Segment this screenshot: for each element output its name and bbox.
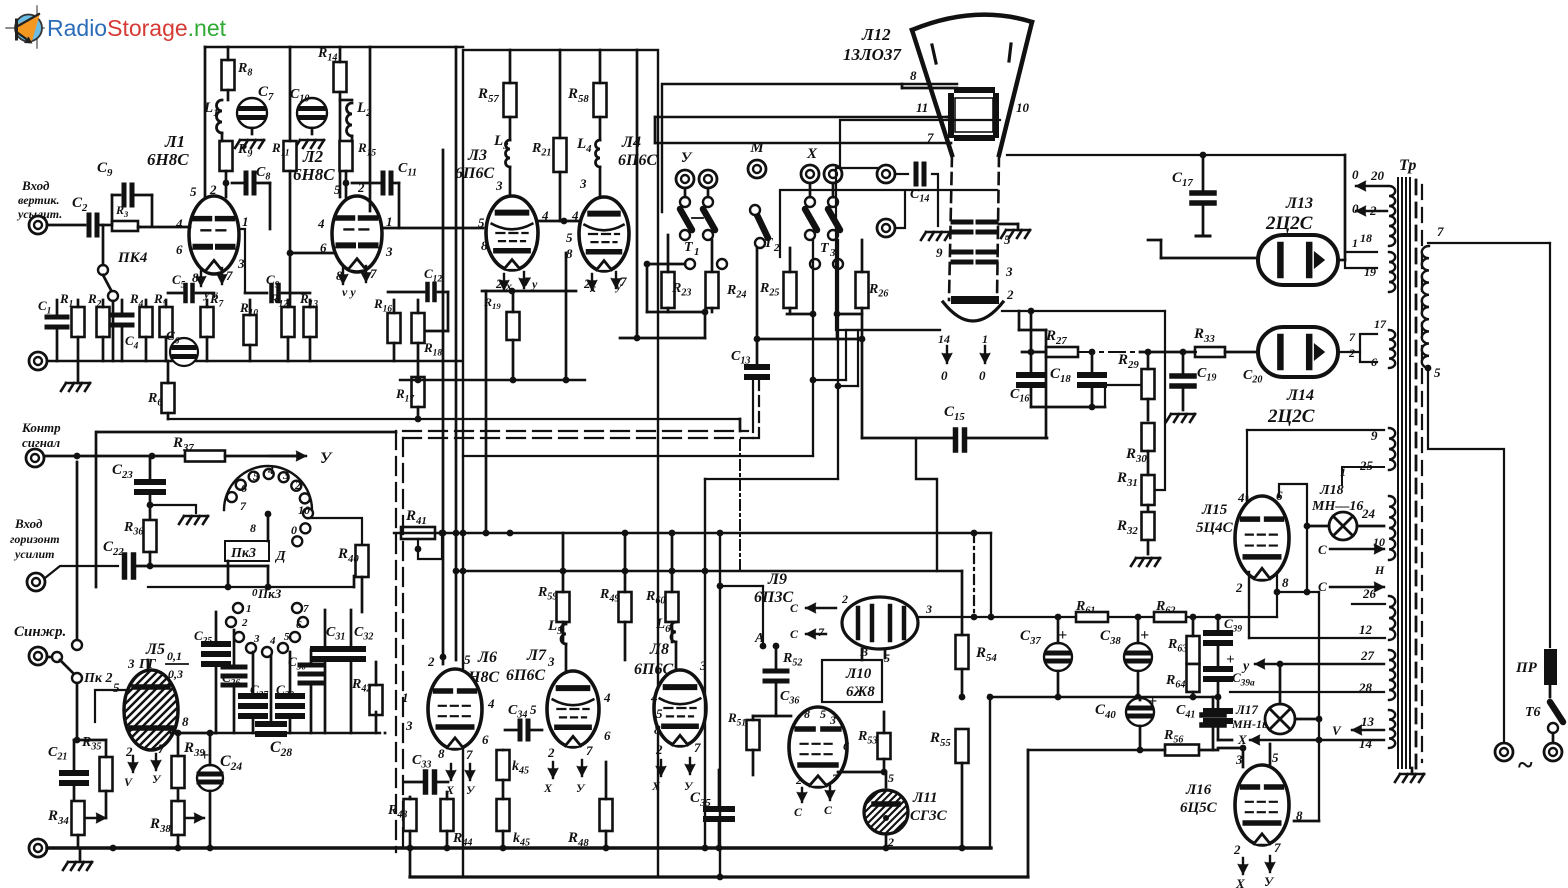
svg-text:1: 1 bbox=[1352, 236, 1358, 250]
svg-text:5Ц4С: 5Ц4С bbox=[1196, 520, 1234, 536]
svg-text:2: 2 bbox=[294, 478, 301, 492]
svg-text:7: 7 bbox=[818, 625, 825, 639]
svg-text:у: у bbox=[530, 277, 538, 291]
svg-text:Л12: Л12 bbox=[861, 25, 891, 44]
svg-text:5: 5 bbox=[190, 184, 197, 199]
svg-text:7: 7 bbox=[927, 130, 934, 145]
svg-text:5: 5 bbox=[113, 680, 120, 695]
svg-text:Пк 2: Пк 2 bbox=[83, 671, 113, 686]
svg-text:4: 4 bbox=[267, 463, 274, 477]
svg-text:4: 4 bbox=[175, 216, 183, 231]
svg-text:Н: Н bbox=[1374, 563, 1385, 577]
svg-text:2: 2 bbox=[1233, 842, 1241, 857]
svg-text:17: 17 bbox=[1374, 317, 1387, 331]
svg-text:0: 0 bbox=[941, 368, 948, 383]
svg-text:5: 5 bbox=[566, 230, 573, 245]
svg-text:6П6С: 6П6С bbox=[506, 667, 545, 684]
svg-text:1: 1 bbox=[982, 332, 988, 346]
svg-text:у: у bbox=[1241, 659, 1250, 674]
svg-text:Вход: Вход bbox=[21, 178, 50, 193]
svg-text:Т: Т bbox=[684, 240, 694, 255]
svg-text:12: 12 bbox=[1359, 622, 1373, 637]
svg-text:7: 7 bbox=[158, 741, 165, 756]
svg-text:1: 1 bbox=[694, 246, 700, 258]
svg-text:2: 2 bbox=[655, 742, 663, 757]
svg-text:6П3С: 6П3С bbox=[754, 589, 793, 606]
svg-text:0: 0 bbox=[291, 523, 297, 537]
svg-text:Л11: Л11 bbox=[912, 790, 937, 806]
svg-text:4: 4 bbox=[317, 216, 325, 231]
svg-text:13ЛО37: 13ЛО37 bbox=[843, 45, 902, 64]
svg-text:С: С bbox=[794, 805, 803, 819]
svg-text:2: 2 bbox=[547, 745, 555, 760]
svg-text:3: 3 bbox=[925, 602, 932, 616]
svg-text:Х: Х bbox=[651, 779, 661, 793]
svg-text:2Ц2С: 2Ц2С bbox=[1267, 406, 1315, 427]
svg-text:Д: Д bbox=[274, 549, 286, 564]
svg-text:6П6С: 6П6С bbox=[455, 165, 494, 182]
svg-text:v у: v у bbox=[342, 285, 356, 299]
svg-text:2Ц2С: 2Ц2С bbox=[1265, 213, 1313, 234]
svg-text:0,1: 0,1 bbox=[167, 649, 182, 663]
svg-text:0: 0 bbox=[1352, 167, 1359, 182]
svg-text:7: 7 bbox=[303, 603, 309, 615]
svg-text:~: ~ bbox=[1518, 750, 1533, 781]
svg-text:Вход: Вход bbox=[14, 516, 43, 531]
svg-text:6Ц5С: 6Ц5С bbox=[1180, 800, 1218, 816]
svg-text:0: 0 bbox=[252, 587, 258, 599]
svg-text:С: С bbox=[1318, 542, 1327, 557]
svg-text:Контр: Контр bbox=[21, 420, 61, 435]
svg-text:1: 1 bbox=[402, 690, 409, 705]
svg-text:2: 2 bbox=[841, 592, 848, 606]
svg-text:ПК4: ПК4 bbox=[117, 250, 148, 266]
svg-text:0: 0 bbox=[1352, 201, 1359, 216]
svg-text:сигнал: сигнал bbox=[22, 435, 61, 450]
svg-text:В: В bbox=[859, 645, 868, 659]
svg-text:7: 7 bbox=[694, 740, 701, 755]
svg-text:СГ3С: СГ3С bbox=[910, 808, 948, 824]
svg-text:3: 3 bbox=[829, 713, 836, 727]
svg-text:2: 2 bbox=[1006, 287, 1014, 302]
svg-text:2: 2 bbox=[241, 617, 248, 629]
svg-text:14: 14 bbox=[938, 332, 950, 346]
svg-text:6Н8С: 6Н8С bbox=[147, 150, 189, 169]
svg-text:4: 4 bbox=[269, 635, 276, 647]
svg-text:3: 3 bbox=[405, 718, 413, 733]
svg-text:4: 4 bbox=[571, 208, 579, 223]
svg-text:5: 5 bbox=[253, 469, 259, 483]
svg-text:+: + bbox=[1140, 627, 1149, 644]
svg-text:Л9: Л9 bbox=[767, 571, 787, 588]
svg-text:+: + bbox=[1058, 627, 1067, 644]
svg-text:вертик.: вертик. bbox=[18, 193, 59, 207]
svg-text:10: 10 bbox=[1016, 100, 1030, 115]
svg-text:7: 7 bbox=[1437, 224, 1444, 239]
svg-text:3: 3 bbox=[253, 633, 260, 645]
svg-text:7: 7 bbox=[1274, 840, 1281, 855]
svg-text:Л8: Л8 bbox=[649, 641, 669, 658]
svg-text:Л6: Л6 bbox=[477, 649, 497, 666]
svg-text:7: 7 bbox=[586, 743, 593, 758]
svg-text:3: 3 bbox=[237, 256, 245, 271]
svg-text:6: 6 bbox=[482, 732, 489, 747]
svg-text:2: 2 bbox=[1235, 580, 1243, 595]
svg-text:Л5: Л5 bbox=[145, 641, 165, 658]
svg-text:6: 6 bbox=[320, 240, 327, 255]
svg-text:25: 25 bbox=[1359, 458, 1374, 473]
svg-text:4: 4 bbox=[650, 690, 658, 705]
svg-text:горизонт: горизонт bbox=[10, 532, 60, 546]
svg-text:5: 5 bbox=[884, 651, 890, 665]
svg-text:7: 7 bbox=[240, 499, 247, 513]
svg-text:Л15: Л15 bbox=[1201, 502, 1228, 518]
svg-text:ПкЗ: ПкЗ bbox=[257, 586, 282, 601]
svg-text:5: 5 bbox=[284, 631, 290, 643]
svg-text:1: 1 bbox=[242, 214, 249, 229]
svg-text:4: 4 bbox=[1237, 490, 1245, 505]
svg-text:Л16: Л16 bbox=[1185, 782, 1212, 798]
svg-text:2: 2 bbox=[357, 180, 365, 195]
svg-text:Х: Х bbox=[1237, 732, 1247, 747]
svg-text:4: 4 bbox=[603, 690, 611, 705]
svg-text:у: у bbox=[614, 279, 622, 293]
svg-text:4: 4 bbox=[487, 696, 495, 711]
svg-text:6Ж8: 6Ж8 bbox=[846, 684, 875, 700]
svg-text:Л1: Л1 bbox=[164, 132, 185, 151]
svg-text:6Н8С: 6Н8С bbox=[293, 165, 335, 184]
svg-text:6: 6 bbox=[843, 739, 849, 753]
svg-text:Л3: Л3 bbox=[467, 147, 487, 164]
svg-text:8: 8 bbox=[250, 521, 256, 535]
svg-text:7: 7 bbox=[1349, 330, 1356, 344]
svg-text:5: 5 bbox=[1434, 365, 1441, 380]
svg-text:С: С bbox=[790, 627, 799, 641]
svg-text:8: 8 bbox=[1282, 575, 1289, 590]
svg-text:Х: Х bbox=[806, 146, 818, 162]
svg-text:V: V bbox=[124, 775, 133, 789]
svg-text:3: 3 bbox=[1005, 264, 1013, 279]
svg-text:7: 7 bbox=[466, 747, 473, 762]
svg-text:Пк3: Пк3 bbox=[230, 546, 256, 561]
svg-text:3: 3 bbox=[127, 656, 135, 671]
svg-text:5: 5 bbox=[1272, 750, 1279, 765]
svg-text:Л7: Л7 bbox=[526, 647, 547, 664]
svg-text:3: 3 bbox=[282, 468, 289, 482]
svg-text:Л18: Л18 bbox=[1319, 483, 1344, 498]
svg-text:8: 8 bbox=[182, 714, 189, 729]
svg-text:11: 11 bbox=[916, 100, 928, 115]
svg-text:4: 4 bbox=[541, 208, 549, 223]
svg-text:13: 13 bbox=[1361, 714, 1375, 729]
svg-text:6: 6 bbox=[241, 481, 247, 495]
svg-text:8: 8 bbox=[654, 722, 661, 737]
svg-text:С: С bbox=[824, 803, 833, 817]
svg-text:У: У bbox=[681, 150, 693, 166]
svg-text:х: х bbox=[589, 281, 596, 295]
svg-text:5: 5 bbox=[478, 215, 485, 230]
svg-text:2: 2 bbox=[427, 654, 435, 669]
svg-text:МН-1ь: МН-1ь bbox=[1231, 717, 1268, 731]
svg-text:8: 8 bbox=[438, 746, 445, 761]
svg-text:Х: Х bbox=[1235, 876, 1245, 888]
svg-text:5: 5 bbox=[530, 702, 537, 717]
svg-text:RadioStorage.net: RadioStorage.net bbox=[47, 15, 227, 41]
svg-text:0: 0 bbox=[979, 368, 986, 383]
svg-text:Х: Х bbox=[543, 781, 553, 795]
svg-text:Синжр.: Синжр. bbox=[14, 624, 66, 640]
svg-text:Т6: Т6 bbox=[1525, 705, 1541, 720]
svg-text:3: 3 bbox=[385, 244, 393, 259]
svg-text:ПР: ПР bbox=[1515, 660, 1538, 676]
svg-text:5: 5 bbox=[334, 182, 341, 197]
svg-text:5: 5 bbox=[888, 771, 894, 785]
svg-text:2: 2 bbox=[795, 773, 802, 787]
svg-text:9: 9 bbox=[936, 245, 943, 260]
svg-text:6: 6 bbox=[176, 242, 183, 257]
svg-text:6: 6 bbox=[296, 619, 302, 631]
svg-text:3: 3 bbox=[579, 176, 587, 191]
svg-text:V: V bbox=[1332, 723, 1342, 738]
svg-text:1: 1 bbox=[246, 603, 252, 615]
svg-text:3: 3 bbox=[495, 178, 503, 193]
svg-text:С: С bbox=[790, 601, 799, 615]
svg-text:26: 26 bbox=[1362, 586, 1377, 601]
svg-text:Т: Т bbox=[820, 241, 830, 256]
svg-text:Л17: Л17 bbox=[1235, 702, 1258, 717]
svg-text:14: 14 bbox=[1359, 736, 1373, 751]
svg-text:Л13: Л13 bbox=[1285, 195, 1313, 212]
svg-text:+: + bbox=[200, 747, 209, 764]
svg-text:7: 7 bbox=[370, 266, 377, 281]
svg-text:0,3: 0,3 bbox=[168, 667, 183, 681]
svg-text:2: 2 bbox=[209, 182, 217, 197]
svg-text:5: 5 bbox=[464, 652, 471, 667]
svg-text:3: 3 bbox=[547, 654, 555, 669]
svg-text:Л2: Л2 bbox=[302, 147, 324, 166]
svg-text:6: 6 bbox=[604, 728, 611, 743]
svg-text:усилит: усилит bbox=[13, 547, 55, 561]
svg-text:+: + bbox=[1226, 652, 1235, 668]
svg-text:5: 5 bbox=[656, 706, 663, 721]
svg-text:7: 7 bbox=[226, 268, 233, 283]
svg-text:18: 18 bbox=[1360, 231, 1372, 245]
svg-text:8: 8 bbox=[910, 68, 917, 83]
svg-text:У: У bbox=[320, 450, 333, 467]
svg-text:10: 10 bbox=[298, 503, 310, 517]
svg-text:Л14: Л14 bbox=[1286, 387, 1314, 404]
svg-text:27: 27 bbox=[1360, 648, 1375, 663]
svg-text:Л10: Л10 bbox=[845, 666, 872, 682]
svg-text:Тр: Тр bbox=[1399, 157, 1416, 174]
svg-text:8: 8 bbox=[804, 707, 810, 721]
svg-text:6: 6 bbox=[1371, 355, 1377, 369]
svg-text:5: 5 bbox=[820, 707, 826, 721]
svg-text:8: 8 bbox=[481, 238, 488, 253]
svg-text:20: 20 bbox=[1370, 168, 1385, 183]
svg-text:1: 1 bbox=[386, 214, 393, 229]
